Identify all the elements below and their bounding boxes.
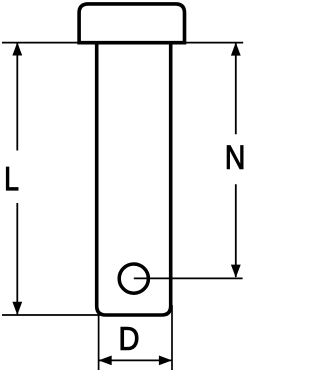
hole circle [119,264,148,293]
extension line bottom left (pin end datum) [2,314,100,316]
arrowhead N bottom (down) [231,265,241,278]
label L [6,167,18,190]
extension line top (head underside datum) [2,42,243,44]
dimension line L lower segment [16,203,18,314]
pin body outline [97,43,171,315]
label D [121,327,138,350]
arrowhead L top (up) [12,42,22,55]
arrowhead D left (pointing left) [99,356,112,366]
pin head outline [79,4,184,43]
dimension line D [99,359,172,361]
dimension line L upper segment [16,43,18,151]
extension line D left [98,305,100,370]
dimension line N lower segment [235,184,237,277]
hole leader line to N dimension [134,277,243,279]
label N [227,146,243,169]
arrowhead N top (up) [231,42,241,55]
arrowhead D right (pointing right) [159,356,172,366]
arrowhead L bottom (down) [12,302,22,315]
extension line D right [171,305,173,370]
dimension line N upper segment [235,43,237,134]
